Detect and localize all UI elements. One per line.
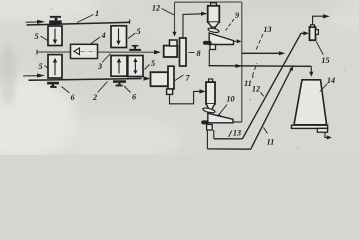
- leader 6a: [62, 87, 70, 94]
- bin 14 trapezoid: [294, 80, 327, 125]
- bin spout with arrow: [325, 132, 327, 137]
- fan unit 8: main box: [164, 46, 178, 57]
- leader 11b: [264, 128, 268, 134]
- svg-text:11: 11: [244, 79, 252, 88]
- leader 6b: [124, 86, 131, 93]
- leader 10: [219, 105, 228, 116]
- roller unit upper-right (5): [111, 26, 127, 48]
- bin base: [292, 125, 328, 128]
- leader 2: [98, 82, 108, 93]
- pulley under line 2 right (6): [113, 80, 126, 83]
- svg-text:15: 15: [321, 56, 329, 65]
- leader 15: [316, 42, 323, 55]
- feed arrow on line 2: [23, 75, 37, 77]
- leader dashes near 11a/12b: [252, 76, 254, 78]
- axis left tick: [36, 50, 38, 55]
- leader 3: [102, 54, 111, 63]
- bin step: [317, 128, 327, 132]
- wedge 10 outlet: [233, 121, 242, 123]
- pulley under line 2 left (6): [47, 82, 59, 85]
- svg-text:12: 12: [252, 85, 260, 94]
- leader 5a: [41, 36, 48, 41]
- fan unit 7: main box: [151, 72, 169, 86]
- leader 9 (dashes): [226, 19, 235, 31]
- leader 7: [175, 75, 184, 81]
- outer bottom collection line: [207, 148, 250, 150]
- conveyor line 2 (bottom belt): [29, 79, 142, 81]
- fan 15: [310, 27, 316, 40]
- end tick of line 1: [129, 20, 131, 24]
- leader 13a dashes: [256, 34, 264, 51]
- svg-text:11: 11: [267, 138, 275, 147]
- leader 12a: [162, 9, 174, 15]
- cyclone 9: [211, 3, 217, 6]
- knob 9: [203, 41, 212, 45]
- wedge separator 10: [208, 113, 233, 123]
- roller unit upper-left (5): [48, 26, 62, 46]
- foot 7: [167, 89, 173, 94]
- inner bottom collection line: [214, 138, 243, 140]
- svg-text:5: 5: [34, 32, 38, 41]
- wedge separator 9: [209, 33, 233, 45]
- svg-text:4: 4: [100, 31, 105, 40]
- arrow on product line: [236, 64, 243, 68]
- wedge 9 outlet to duct 13: [234, 40, 238, 42]
- svg-text:1: 1: [95, 9, 99, 18]
- leader 5d: [145, 65, 150, 70]
- roller unit lower-right (double arrow, 5): [128, 56, 143, 77]
- svg-text:14: 14: [327, 76, 335, 85]
- svg-text:12: 12: [152, 4, 160, 13]
- leader 5b: [45, 66, 48, 69]
- svg-text:5: 5: [38, 62, 42, 71]
- svg-text:8: 8: [196, 49, 200, 58]
- svg-text:2: 2: [92, 93, 97, 102]
- feed arrow on line 1: [26, 21, 38, 23]
- valve ellipse 9: [208, 27, 220, 33]
- leader for label 1: [77, 15, 94, 23]
- paper background: [0, 0, 359, 155]
- svg-text:5: 5: [136, 27, 140, 36]
- cyclone 10: [209, 79, 213, 82]
- fan unit 7: tall plate: [168, 66, 174, 89]
- roller unit lower-left (5): [48, 55, 62, 78]
- svg-text:13: 13: [263, 25, 271, 34]
- foot 10: [207, 125, 213, 131]
- top duct line: [175, 1, 242, 3]
- pulley/drive on line 1: [49, 20, 62, 24]
- machine axis line: [37, 51, 157, 53]
- svg-text:10: 10: [226, 95, 234, 104]
- knob 10: [201, 120, 208, 124]
- arrow line2 into unit 7: [144, 76, 151, 80]
- line from foot 9 down to product line: [208, 50, 210, 66]
- leader 4: [91, 37, 101, 44]
- product line to bin: [209, 65, 312, 68]
- fan unit 8: tall plate: [180, 38, 187, 66]
- vertical duct 13: [241, 2, 243, 122]
- duct 11 right diagonal: [251, 69, 292, 150]
- leader 13b: [229, 131, 232, 138]
- leader 5c: [128, 33, 136, 39]
- fan unit 8: top rect: [170, 40, 178, 46]
- conveyor line 1 (top belt): [27, 22, 130, 25]
- leader 14: [320, 84, 328, 92]
- motor box 4: [71, 44, 98, 58]
- svg-text:3: 3: [97, 62, 102, 71]
- label 8 dash: [189, 52, 195, 54]
- axis arrow into unit 8: [154, 50, 161, 54]
- path unit7 to cyclone 10: [170, 91, 200, 103]
- pulley on axis: [129, 49, 141, 51]
- duct from plate 8 up to cyclone 9: [183, 14, 202, 38]
- product line corner down into bin with arrow: [310, 66, 312, 72]
- valve ellipse 10: [202, 107, 215, 113]
- svg-text:9: 9: [235, 11, 239, 20]
- lines down from foot 10: [206, 130, 208, 149]
- duct 11 left diagonal up to fan 15: [242, 33, 304, 139]
- svg-text:13: 13: [233, 128, 241, 137]
- exhaust line 13 horizontal with arrow: [242, 52, 279, 54]
- svg-text:5: 5: [151, 59, 155, 68]
- foot 9: [210, 45, 216, 50]
- exhaust from fan 15: [313, 16, 324, 25]
- duct 12 vertical into unit 8: [174, 2, 176, 33]
- roller unit lower-mid (up arrow): [111, 56, 127, 77]
